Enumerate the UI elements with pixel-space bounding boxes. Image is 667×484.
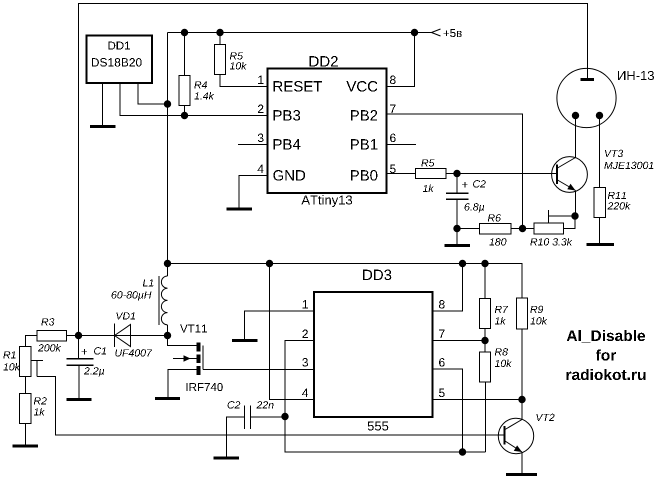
junction R7 top bbox=[482, 260, 488, 266]
resistor R4 1.4k bbox=[179, 33, 214, 116]
wire DD2 pin7 PB2 to R6/R10 node bbox=[387, 114, 523, 229]
wire +5V rail bbox=[168, 32, 432, 34]
resistor R5 1k bbox=[416, 159, 447, 192]
wire DD3 pin2 to C2 node bbox=[285, 341, 314, 417]
resistor R5 10k (reset pull-up) bbox=[215, 33, 268, 87]
wire DD2 pin4 to ground bbox=[239, 176, 268, 208]
wire DD3 pin8 riser to rail bbox=[433, 264, 463, 312]
ground under VT2 bbox=[506, 473, 537, 476]
pin number 3 DD3 bbox=[302, 358, 308, 367]
wire R1 to R2 bbox=[25, 377, 27, 394]
junction L1/VD1/drain node bbox=[164, 332, 170, 338]
junction C2/pin2 node bbox=[282, 413, 288, 419]
junction R5 top bbox=[217, 29, 223, 35]
wire DD2 pin6 stub bbox=[387, 144, 417, 146]
ground under VT11 source bbox=[155, 397, 180, 400]
wire VT11 gate to DD3 pin3 bbox=[203, 369, 314, 371]
pin number 7 DD2 bbox=[390, 105, 396, 113]
junction pin5/R9/VT2 collector bbox=[519, 396, 525, 402]
pin number 8 DD2 bbox=[390, 76, 396, 85]
pin number 7 DD3 bbox=[439, 330, 445, 338]
ground under R11 bbox=[587, 243, 615, 246]
transistor VT3 MJE13001 bbox=[552, 115, 654, 216]
pin number 5 DD2 bbox=[390, 165, 396, 173]
wire DD3 pin7 to R7/R8 node bbox=[433, 340, 486, 342]
DD1 DS18B20 bbox=[87, 36, 153, 84]
inductor L1 60-80µH bbox=[112, 276, 168, 336]
junction R7/R8/pin7 node bbox=[482, 337, 488, 343]
op-amp DD2 ATtiny13 box bbox=[268, 56, 387, 207]
wire DD2 pin5 to R5 1k bbox=[387, 173, 416, 175]
ground under DD3 pin1 bbox=[232, 339, 258, 342]
resistor R9 10k bbox=[517, 298, 548, 400]
wire +5V riser to L1 and DD3 rail bbox=[167, 33, 169, 277]
node +5в terminal bbox=[432, 29, 462, 37]
junction VCC riser bbox=[411, 29, 417, 35]
junction R5/C2/base node bbox=[454, 170, 460, 176]
wire R6 to R10 bbox=[511, 228, 534, 230]
ground under R2 bbox=[13, 445, 39, 448]
wire DD1 vdd pin to +5V riser bbox=[138, 83, 168, 104]
resistor R7 1k bbox=[480, 264, 509, 341]
junction R4 top bbox=[181, 29, 187, 35]
pin number 3 DD2 bbox=[258, 134, 264, 143]
ground under C1 bbox=[67, 398, 92, 401]
resistor R3 200k bbox=[26, 318, 79, 351]
wire DD1 pin1 to ground bbox=[102, 83, 104, 126]
pin number 4 DD2 bbox=[258, 165, 264, 173]
junction DD1 vdd on riser bbox=[164, 101, 170, 107]
wire DD3 pin4 to +5V rail riser bbox=[270, 264, 315, 400]
junction VT3 emitter/R10 node bbox=[572, 213, 578, 219]
wire DD3 pin5 to R9/VT2 node bbox=[433, 399, 523, 401]
pin number 2 DD2 bbox=[258, 105, 264, 113]
wire DD3 +5V rail bbox=[168, 264, 523, 299]
resistor R10 3.3k (trimmer) bbox=[530, 210, 575, 246]
wire R5 1k to VT3 base bbox=[446, 173, 556, 175]
ground under C2 22n bbox=[214, 457, 240, 460]
wire DD3 pin1 to ground bbox=[245, 311, 315, 339]
wire C2 node to R8/pin6 line bbox=[285, 417, 486, 453]
resistor R8 10k bbox=[480, 341, 512, 453]
resistor R11 220k bbox=[594, 116, 631, 244]
capacitor C1 2.2µ bbox=[67, 336, 107, 399]
text Al_Disable for radiokot.ru bbox=[567, 330, 646, 380]
wire DD2 pin8 VCC to +5V rail bbox=[387, 33, 415, 87]
ground under C2 6.8µ bbox=[445, 244, 471, 247]
wire HV output loop (top/left border to tube anode) bbox=[79, 4, 588, 336]
pin number 5 DD3 bbox=[439, 389, 445, 397]
pin number 6 DD2 bbox=[390, 134, 396, 143]
resistor R6 180 bbox=[457, 214, 511, 245]
capacitor C2 6.8µ bbox=[446, 174, 486, 229]
pin number 4 DD3 bbox=[302, 389, 308, 397]
junction DD3 pin8 riser top bbox=[459, 260, 465, 266]
tube ИН-13 bbox=[557, 68, 654, 127]
wire DD3 pin6 riser bbox=[433, 369, 463, 452]
junction pin6 riser on trigger line bbox=[459, 449, 465, 455]
op-amp DD3 555 box bbox=[314, 270, 433, 431]
ground under DD1 bbox=[90, 125, 116, 128]
transistor VT11 IRF740 (MOSFET) bbox=[168, 325, 223, 397]
junction +5V riser / DD3 rail bbox=[164, 260, 170, 266]
junction R3/C1/HV node bbox=[75, 332, 81, 338]
wire C2 node to ground bbox=[456, 229, 458, 245]
pin number 6 DD3 bbox=[439, 358, 445, 367]
ground under DD2 GND bbox=[227, 208, 253, 211]
capacitor C2 22n bbox=[227, 401, 286, 456]
pin number 8 DD3 bbox=[439, 300, 445, 309]
transistor VT2 bbox=[498, 400, 554, 474]
pin number 1 DD3 bbox=[303, 300, 308, 308]
pin number 2 DD3 bbox=[302, 330, 308, 338]
wire DD1 data pin to PB3 line bbox=[120, 83, 268, 116]
junction R6/R10/PB2 node bbox=[519, 225, 525, 231]
junction C2-/R6 node bbox=[454, 225, 460, 231]
wire DD2 pin3 stub bbox=[238, 144, 268, 146]
pin number 1 DD2 bbox=[258, 76, 263, 84]
junction R4 bottom on PB3 line bbox=[181, 112, 187, 118]
diode VD1 UF4007 bbox=[79, 312, 168, 356]
resistor R1 10k (trimmer) bbox=[3, 347, 43, 377]
resistor R2 1k bbox=[20, 394, 47, 445]
wire R1 wiper to VT2 base line bbox=[37, 377, 504, 436]
junction DD3 pin4 riser top bbox=[266, 260, 272, 266]
